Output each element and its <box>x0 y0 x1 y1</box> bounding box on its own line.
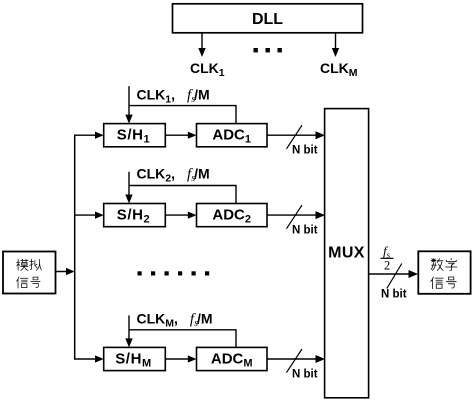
svg-text:CLK1: CLK1 <box>190 60 225 79</box>
svg-text:2: 2 <box>384 258 390 272</box>
svg-text:CLK2,fs/M: CLK2,fs/M <box>137 165 210 184</box>
svg-text:N bit: N bit <box>292 368 318 380</box>
svg-text:CLK1,fs/M: CLK1,fs/M <box>137 86 210 105</box>
svg-text:CLKM,fs/M: CLKM,fs/M <box>137 311 213 330</box>
svg-text:N bit: N bit <box>292 225 318 237</box>
svg-text:MUX: MUX <box>328 245 365 262</box>
svg-text:N bit: N bit <box>381 289 407 301</box>
svg-text:N bit: N bit <box>292 145 318 157</box>
svg-text:DLL: DLL <box>252 11 283 28</box>
svg-text:CLKM: CLKM <box>320 60 358 79</box>
